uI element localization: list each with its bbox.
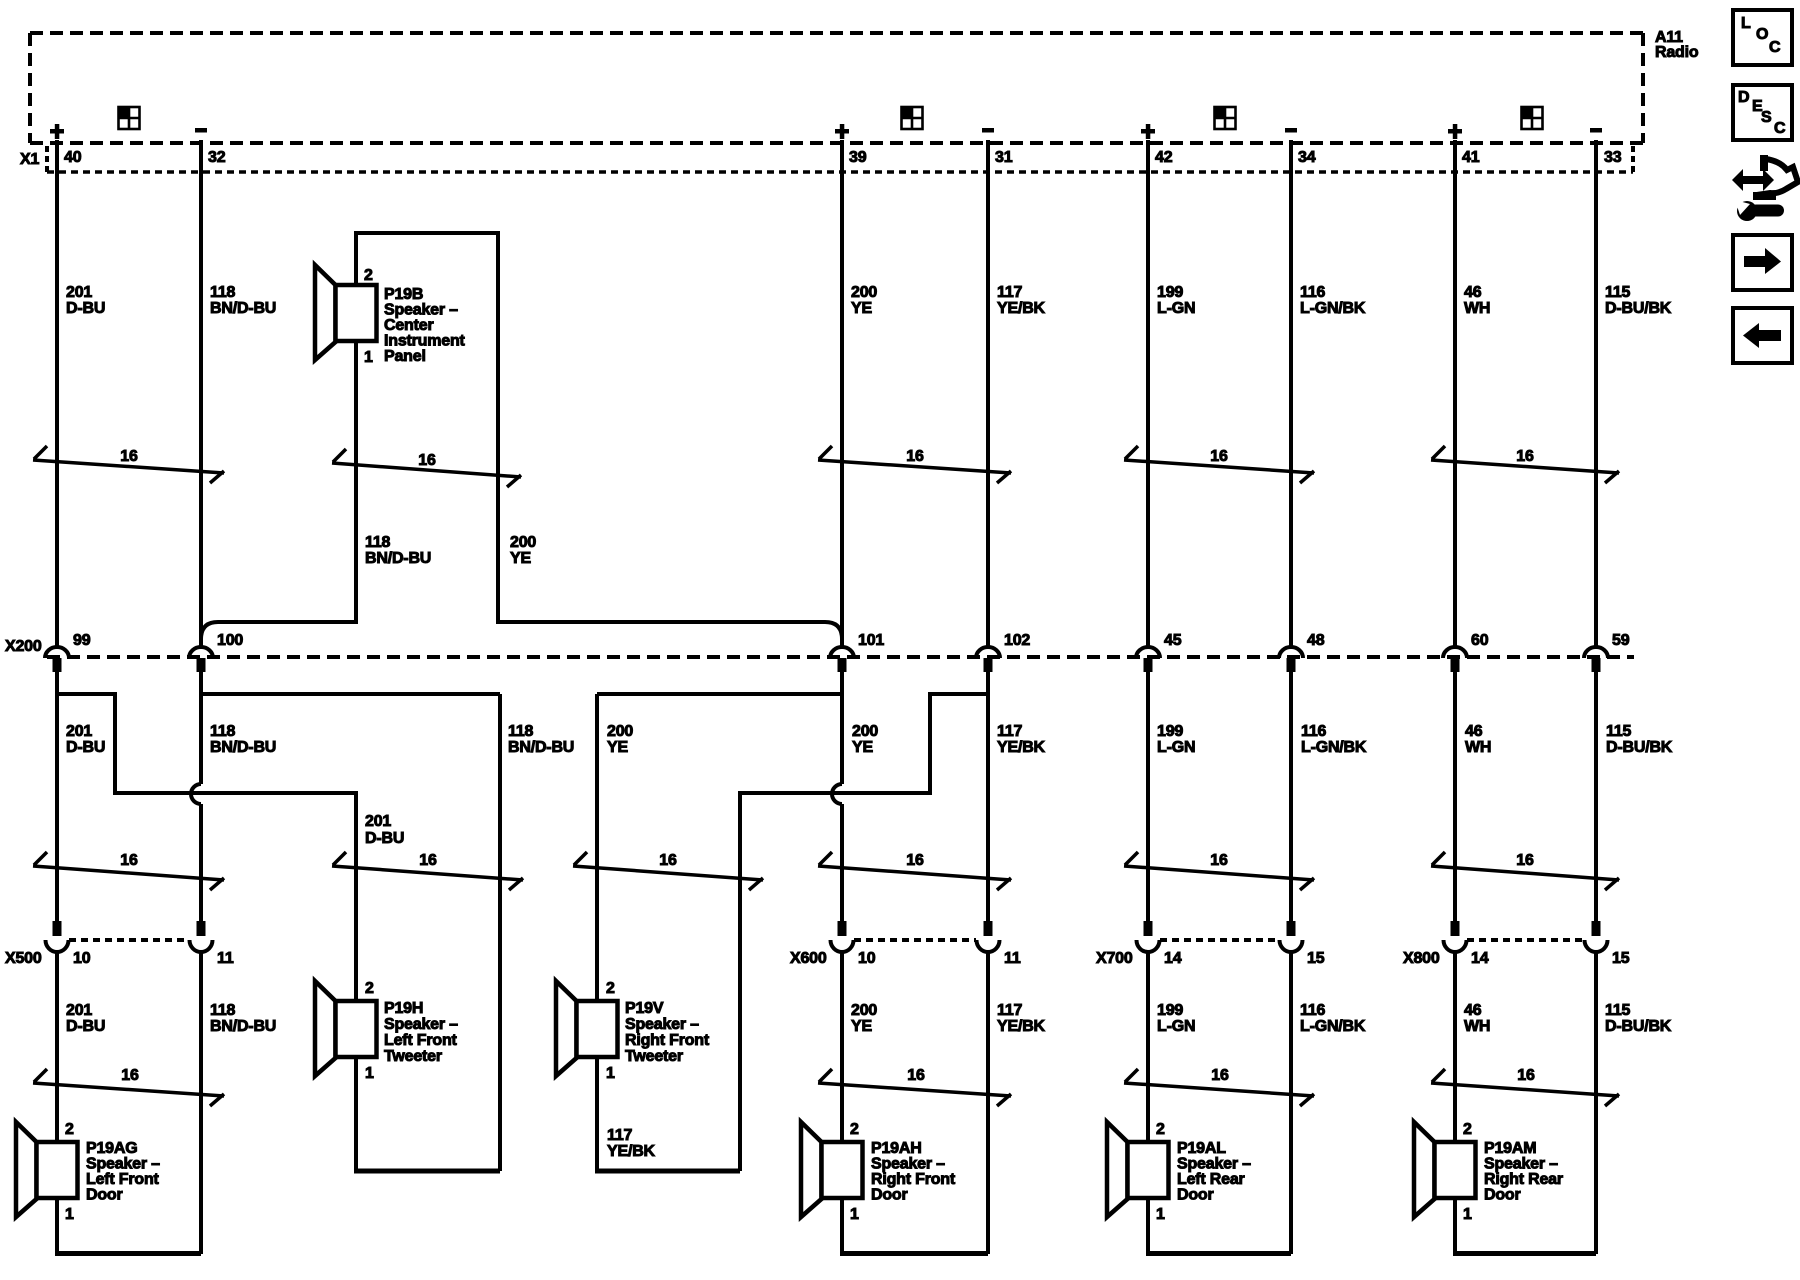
svg-text:1: 1: [850, 1206, 859, 1223]
X1 pin 31: [995, 149, 1013, 166]
speaker symbol (channel 2): [902, 107, 923, 129]
radio output + polarity mark (channel 3): [1141, 124, 1155, 139]
svg-text:BN/D-BU: BN/D-BU: [508, 739, 574, 756]
svg-text:Panel: Panel: [384, 348, 426, 365]
X600 pin 10: [858, 950, 876, 967]
svg-text:YE: YE: [607, 739, 628, 756]
X500 pin 11: [217, 950, 234, 967]
wire gauge marker 16 (wires at x=842,988): [818, 446, 1011, 483]
svg-text:Door: Door: [871, 1187, 908, 1204]
connector X800 row: [1467, 938, 1584, 942]
value label 116 L-GN/BK: [1301, 723, 1367, 756]
speaker P19AL symbol: [1107, 1122, 1169, 1217]
wire junction / branch 201 D-BU to P19H: [57, 694, 356, 1003]
wire (X200 to rear connector), x=1596: [1594, 672, 1598, 921]
svg-text:11: 11: [217, 950, 234, 967]
value label 199 L-GN: [1157, 723, 1195, 756]
value label 118 BN/D-BU: [210, 284, 276, 317]
value label 115 D-BU/BK: [1605, 284, 1672, 317]
wire 200 YE (X1 to X200), x=842: [840, 140, 844, 647]
wire 115 D-BU/BK (X1 to X200), x=1596: [1594, 140, 1598, 647]
radio output - polarity mark (channel 2): [982, 128, 994, 133]
svg-text:201: 201: [66, 723, 92, 740]
value label 201 D-BU: [66, 1002, 105, 1035]
svg-text:S: S: [1761, 109, 1772, 126]
value label 118 BN/D-BU: [210, 1002, 276, 1035]
svg-text:Center: Center: [384, 317, 433, 334]
svg-text:116: 116: [1301, 723, 1327, 740]
svg-text:Tweeter: Tweeter: [625, 1048, 683, 1065]
X500 pin 10: [73, 950, 91, 967]
wire hop (200 over branch): [832, 784, 842, 804]
svg-text:16: 16: [1517, 1067, 1535, 1084]
wire gauge marker 16 (wires at x=356,500): [332, 852, 523, 890]
wire gauge marker 16 (wires at x=57,201): [33, 446, 224, 483]
wire P19H loop bottom: [354, 1169, 500, 1174]
svg-text:Speaker –: Speaker –: [384, 302, 458, 319]
svg-text:X700: X700: [1096, 950, 1133, 967]
wire P19B right lead (200 YE) down to X200 pin 101: [498, 231, 842, 647]
X1 pin 42: [1155, 149, 1173, 166]
wire 116 L-GN/BK (door speaker pin 1 loop to connector): [1289, 951, 1293, 1254]
svg-text:YE: YE: [852, 739, 873, 756]
radio output + polarity mark (channel 1): [50, 124, 64, 139]
svg-text:10: 10: [858, 950, 876, 967]
svg-text:Door: Door: [86, 1187, 123, 1204]
svg-text:Speaker –: Speaker –: [871, 1156, 945, 1173]
wire 199 L-GN (connector to door speaker pin 2): [1146, 951, 1150, 1145]
svg-text:L-GN: L-GN: [1157, 739, 1195, 756]
svg-text:Speaker –: Speaker –: [1177, 1156, 1251, 1173]
svg-text:YE/BK: YE/BK: [997, 300, 1046, 317]
wire 116 L-GN/BK (X1 to X200), x=1291: [1289, 140, 1293, 647]
svg-text:D-BU/BK: D-BU/BK: [1605, 1018, 1672, 1035]
P19V pin 2: [606, 980, 615, 997]
value label 199 L-GN: [1157, 1002, 1195, 1035]
sidebar forward arrow box: [1733, 235, 1792, 290]
X200 pin 60: [1471, 632, 1489, 649]
svg-text:Speaker –: Speaker –: [384, 1016, 458, 1033]
svg-text:200: 200: [851, 1002, 877, 1019]
wire P19AG pin 1 lead: [55, 1197, 59, 1254]
svg-text:200: 200: [510, 534, 536, 551]
speaker symbol (channel 4): [1522, 107, 1543, 129]
svg-text:16: 16: [418, 452, 436, 469]
svg-text:46: 46: [1465, 723, 1483, 740]
value label 117 YE/BK: [997, 1002, 1046, 1035]
X200 pin 45 terminal: [1136, 647, 1160, 672]
speaker P19H symbol: [315, 981, 377, 1076]
svg-text:X200: X200: [5, 638, 42, 655]
value label 46 WH: [1464, 1002, 1490, 1035]
wire (X200 to rear connector), x=1291: [1289, 672, 1293, 921]
svg-text:40: 40: [64, 149, 82, 166]
value label 117 YE/BK: [997, 723, 1046, 756]
X500 pin 10 terminal: [46, 921, 69, 952]
svg-text:BN/D-BU: BN/D-BU: [210, 739, 276, 756]
X500 pin 11 terminal: [190, 921, 213, 952]
value label 201 D-BU: [66, 723, 105, 756]
wire P19V loop bottom: [595, 1169, 740, 1174]
X200 pin 102 terminal: [976, 647, 1000, 672]
sidebar back arrow box: [1733, 308, 1792, 363]
radio output + polarity mark (channel 4): [1448, 124, 1462, 139]
wire 118 BN/D-BU (X1 to X200), x=201: [199, 140, 203, 647]
wire branch 200 YE to P19V pin 2: [597, 694, 842, 1003]
svg-text:1: 1: [1463, 1206, 1472, 1223]
wire 201 D-BU (X200-99 to X500-10): [55, 672, 59, 921]
wire branch 117 YE/BK to P19V pin 1 loop: [740, 694, 988, 1171]
svg-text:2: 2: [365, 980, 374, 997]
P19AM pin 2: [1463, 1121, 1472, 1138]
wire 200 YE (connector to door speaker pin 2): [840, 951, 844, 1145]
value label 200 YE: [851, 1002, 877, 1035]
label X500: [5, 950, 42, 967]
svg-text:O: O: [1756, 26, 1768, 43]
value label 118 BN/D-BU (P19B pin 2 wire): [365, 534, 431, 567]
wire gauge marker 16 (wires at x=57,201): [33, 852, 224, 890]
radio A11 dashed box: [30, 33, 1643, 143]
wire P19AG loop bottom: [55, 1251, 201, 1256]
svg-text:115: 115: [1606, 723, 1632, 740]
svg-text:1: 1: [364, 349, 373, 366]
svg-text:D: D: [1738, 89, 1749, 106]
X200 pin 102: [1004, 632, 1030, 649]
svg-text:P19AM: P19AM: [1484, 1140, 1536, 1157]
P19AG pin 1: [65, 1206, 74, 1223]
svg-text:99: 99: [73, 632, 91, 649]
label X1: [20, 151, 39, 168]
svg-text:118: 118: [508, 723, 534, 740]
svg-text:199: 199: [1157, 1002, 1183, 1019]
P19B pin 1: [364, 349, 373, 366]
svg-text:YE: YE: [851, 300, 872, 317]
svg-text:14: 14: [1471, 950, 1489, 967]
svg-text:P19V: P19V: [625, 1000, 664, 1017]
value label 117 YE/BK: [997, 284, 1046, 317]
speaker symbol (channel 1): [119, 107, 140, 129]
svg-text:31: 31: [995, 149, 1013, 166]
svg-text:YE: YE: [510, 550, 531, 567]
svg-text:Right Front: Right Front: [625, 1032, 710, 1049]
X200 pin 48 terminal: [1279, 647, 1303, 672]
wire P19AM pin 1 lead: [1453, 1197, 1457, 1254]
P19H pin 2: [365, 980, 374, 997]
svg-text:117: 117: [997, 1002, 1023, 1019]
svg-text:118: 118: [210, 723, 236, 740]
X1 pin 40: [64, 149, 82, 166]
svg-text:Speaker –: Speaker –: [86, 1156, 160, 1173]
svg-text:101: 101: [858, 632, 884, 649]
X1 pin 34: [1298, 149, 1316, 166]
svg-text:100: 100: [217, 632, 243, 649]
svg-text:X1: X1: [20, 151, 39, 168]
svg-text:X600: X600: [790, 950, 827, 967]
svg-text:41: 41: [1462, 149, 1480, 166]
P19AG pin 2: [65, 1121, 74, 1138]
svg-text:34: 34: [1298, 149, 1316, 166]
svg-text:WH: WH: [1464, 1018, 1490, 1035]
X800 pin 14: [1471, 950, 1489, 967]
X200 pin 59 terminal: [1584, 647, 1608, 672]
svg-text:45: 45: [1164, 632, 1182, 649]
svg-text:Tweeter: Tweeter: [384, 1048, 442, 1065]
wire (X200 to rear connector), x=1148: [1146, 672, 1150, 921]
svg-text:199: 199: [1157, 723, 1183, 740]
svg-text:16: 16: [1210, 448, 1228, 465]
svg-text:201: 201: [365, 813, 391, 830]
svg-text:YE/BK: YE/BK: [997, 1018, 1046, 1035]
svg-text:200: 200: [852, 723, 878, 740]
svg-text:Door: Door: [1177, 1187, 1214, 1204]
X700 pin 15 terminal: [1280, 921, 1303, 952]
svg-text:15: 15: [1612, 950, 1630, 967]
svg-text:Speaker –: Speaker –: [625, 1016, 699, 1033]
wire 117 YE/BK (door speaker pin 1 loop to connector): [986, 951, 990, 1254]
svg-text:Radio: Radio: [1655, 44, 1699, 61]
speaker P19V symbol: [556, 981, 618, 1076]
svg-text:L-GN: L-GN: [1157, 300, 1195, 317]
connector X600 row: [854, 938, 976, 942]
X600 pin 11: [1004, 950, 1021, 967]
wire gauge marker 16 (wires at x=57,201): [33, 1067, 224, 1106]
label P19V Speaker - Right Front Tweeter: [625, 1000, 710, 1065]
P19AH pin 1: [850, 1206, 859, 1223]
X800 pin 15 terminal: [1585, 921, 1608, 952]
svg-text:42: 42: [1155, 149, 1173, 166]
speaker symbol (channel 3): [1215, 107, 1236, 129]
wire P19B top edge: [354, 231, 500, 235]
svg-text:2: 2: [850, 1121, 859, 1138]
svg-text:199: 199: [1157, 284, 1183, 301]
X200 pin 60 terminal: [1443, 647, 1467, 672]
P19AL pin 1: [1156, 1206, 1165, 1223]
svg-text:D-BU: D-BU: [66, 739, 105, 756]
svg-text:16: 16: [906, 448, 924, 465]
wire gauge marker 16 (wires at x=1455,1596): [1431, 852, 1619, 890]
wire 115 D-BU/BK (door speaker pin 1 loop to connector): [1594, 951, 1598, 1254]
wire gauge marker 16 (wires at x=1455,1596): [1431, 446, 1619, 483]
wire 201 D-BU (connector to door speaker pin 2): [55, 951, 59, 1145]
value label 116 L-GN/BK: [1300, 284, 1366, 317]
value label 200 YE (P19B pin 1 wire): [510, 534, 536, 567]
svg-text:C: C: [1769, 39, 1781, 56]
X600 pin 10 terminal: [831, 921, 854, 952]
wire 46 WH (X1 to X200), x=1455: [1453, 140, 1457, 647]
svg-text:16: 16: [907, 1067, 925, 1084]
svg-text:16: 16: [120, 448, 138, 465]
svg-text:14: 14: [1164, 950, 1182, 967]
svg-text:11: 11: [1004, 950, 1021, 967]
svg-text:16: 16: [1210, 852, 1228, 869]
wire P19B pin 1 lead down to X200 pin 100: [201, 338, 356, 647]
value label 199 L-GN: [1157, 284, 1195, 317]
svg-text:200: 200: [607, 723, 633, 740]
value label 201 D-BU: [66, 284, 105, 317]
svg-text:116: 116: [1300, 284, 1326, 301]
wire P19AH pin 1 lead: [840, 1197, 844, 1254]
label P19AG Speaker - Left Front Door: [86, 1140, 160, 1204]
wire 200 YE (X200-101 to X600-10) with hop: [840, 672, 844, 921]
svg-text:2: 2: [1463, 1121, 1472, 1138]
label P19H Speaker - Left Front Tweeter: [384, 1000, 458, 1065]
svg-text:Speaker –: Speaker –: [1484, 1156, 1558, 1173]
svg-text:D-BU: D-BU: [365, 830, 404, 847]
X700 pin 15: [1307, 950, 1325, 967]
svg-text:32: 32: [208, 149, 226, 166]
label A11 Radio: [1655, 29, 1699, 61]
wire 118 BN/D-BU (door speaker pin 1 loop to connector): [199, 951, 203, 1254]
connector X1 row: [47, 146, 1633, 174]
svg-text:Left Rear: Left Rear: [1177, 1171, 1245, 1188]
svg-text:59: 59: [1612, 632, 1630, 649]
svg-text:16: 16: [419, 852, 437, 869]
svg-text:WH: WH: [1464, 300, 1490, 317]
wire 46 WH (connector to door speaker pin 2): [1453, 951, 1457, 1145]
svg-text:1: 1: [65, 1206, 74, 1223]
svg-text:P19H: P19H: [384, 1000, 423, 1017]
svg-text:16: 16: [120, 852, 138, 869]
P19AM pin 1: [1463, 1206, 1472, 1223]
X1 pin 32: [208, 149, 226, 166]
wire gauge marker 16 (wires at x=1455,1596): [1431, 1067, 1619, 1106]
svg-text:117: 117: [607, 1127, 633, 1144]
svg-text:39: 39: [849, 149, 867, 166]
value label 200 YE: [852, 723, 878, 756]
svg-text:10: 10: [73, 950, 91, 967]
svg-text:Right Front: Right Front: [871, 1171, 956, 1188]
X1 pin 33: [1604, 149, 1622, 166]
svg-text:118: 118: [365, 534, 391, 551]
connector X500 row: [69, 938, 189, 942]
value label 46 WH: [1464, 284, 1490, 317]
label P19AH Speaker - Right Front Door: [871, 1140, 956, 1204]
X200 pin 100: [217, 632, 243, 649]
wire gauge marker 16 (wires at x=1148,1291): [1124, 1067, 1314, 1106]
svg-text:BN/D-BU: BN/D-BU: [210, 300, 276, 317]
svg-text:Left Front: Left Front: [86, 1171, 160, 1188]
svg-text:117: 117: [997, 284, 1023, 301]
wire gauge marker 16 (wires at x=356,498): [332, 449, 521, 487]
value label 46 WH: [1465, 723, 1491, 756]
label X700: [1096, 950, 1133, 967]
svg-text:116: 116: [1300, 1002, 1326, 1019]
svg-text:D-BU/BK: D-BU/BK: [1605, 300, 1672, 317]
X200 pin 45: [1164, 632, 1182, 649]
svg-text:C: C: [1774, 120, 1786, 137]
svg-text:YE/BK: YE/BK: [997, 739, 1046, 756]
label X800: [1403, 950, 1440, 967]
svg-text:15: 15: [1307, 950, 1325, 967]
svg-text:L-GN/BK: L-GN/BK: [1300, 300, 1366, 317]
svg-text:D-BU/BK: D-BU/BK: [1606, 739, 1673, 756]
speaker P19B symbol: [315, 265, 377, 360]
X200 pin 101: [858, 632, 884, 649]
wire gauge marker 16 (wires at x=1148,1291): [1124, 446, 1314, 483]
svg-text:Instrument: Instrument: [384, 333, 466, 350]
value label 116 L-GN/BK: [1300, 1002, 1366, 1035]
radio output - polarity mark (channel 3): [1285, 128, 1297, 133]
svg-text:201: 201: [66, 284, 92, 301]
svg-text:D-BU: D-BU: [66, 1018, 105, 1035]
wire hop (118 over branch): [191, 784, 201, 804]
svg-text:16: 16: [1211, 1067, 1229, 1084]
P19H pin 1: [365, 1065, 374, 1082]
svg-text:102: 102: [1004, 632, 1030, 649]
wire 199 L-GN (X1 to X200), x=1148: [1146, 140, 1150, 647]
wire 201 D-BU (X1 to X200), x=57: [55, 140, 59, 647]
svg-text:YE/BK: YE/BK: [607, 1143, 656, 1160]
speaker P19AH symbol: [801, 1122, 863, 1217]
wire branch 118 BN/D-BU to P19H pin 1 loop: [201, 694, 500, 1171]
svg-text:2: 2: [65, 1121, 74, 1138]
X700 pin 14: [1164, 950, 1182, 967]
X700 pin 14 terminal: [1137, 921, 1160, 952]
svg-text:Right Rear: Right Rear: [1484, 1171, 1563, 1188]
label X200: [5, 638, 42, 655]
svg-text:2: 2: [606, 980, 615, 997]
wire P19AM loop bottom: [1453, 1251, 1596, 1256]
P19B pin 2: [364, 267, 373, 284]
svg-text:P19AG: P19AG: [86, 1140, 137, 1157]
radio output - polarity mark (channel 4): [1590, 128, 1602, 133]
X200 pin 99 terminal: [45, 647, 69, 672]
svg-text:BN/D-BU: BN/D-BU: [365, 550, 431, 567]
value label 117 YE/BK (P19V pin 1 wire): [607, 1127, 656, 1160]
connector X700 row: [1160, 938, 1279, 942]
wire gauge marker 16 (wires at x=1148,1291): [1124, 852, 1314, 890]
value label 200 YE: [851, 284, 877, 317]
value label 201 D-BU (branch to P19H): [365, 813, 404, 847]
X1 pin 39: [849, 149, 867, 166]
svg-text:BN/D-BU: BN/D-BU: [210, 1018, 276, 1035]
svg-text:118: 118: [210, 1002, 236, 1019]
svg-text:115: 115: [1605, 284, 1631, 301]
P19AH pin 2: [850, 1121, 859, 1138]
X1 pin 41: [1462, 149, 1480, 166]
label P19AL Speaker - Left Rear Door: [1177, 1140, 1251, 1204]
wire P19AL pin 1 lead: [1146, 1197, 1150, 1254]
svg-text:16: 16: [659, 852, 677, 869]
svg-text:16: 16: [906, 852, 924, 869]
P19AL pin 2: [1156, 1121, 1165, 1138]
speaker P19AG symbol: [16, 1122, 78, 1217]
svg-text:P19AL: P19AL: [1177, 1140, 1226, 1157]
svg-text:2: 2: [364, 267, 373, 284]
X200 pin 48: [1307, 632, 1325, 649]
svg-text:P19AH: P19AH: [871, 1140, 922, 1157]
X200 pin 59: [1612, 632, 1630, 649]
svg-text:16: 16: [1516, 852, 1534, 869]
value label 118 BN/D-BU: [508, 723, 574, 756]
svg-text:16: 16: [121, 1067, 139, 1084]
wire 117 YE/BK (X200-102 to X600-11): [986, 672, 990, 921]
svg-text:60: 60: [1471, 632, 1489, 649]
sidebar service/tools icon (arrows and wrench): [1732, 155, 1798, 221]
svg-text:Left Front: Left Front: [384, 1032, 458, 1049]
svg-text:Door: Door: [1484, 1187, 1521, 1204]
sidebar DESC legend box: [1733, 85, 1792, 140]
X800 pin 14 terminal: [1444, 921, 1467, 952]
svg-text:33: 33: [1604, 149, 1622, 166]
value label 200 YE: [607, 723, 633, 756]
wire 117 YE/BK (X1 to X200), x=988: [986, 140, 990, 647]
P19V pin 1: [606, 1065, 615, 1082]
svg-text:48: 48: [1307, 632, 1325, 649]
radio output - polarity mark (channel 1): [195, 128, 207, 133]
speaker P19AM symbol: [1414, 1122, 1476, 1217]
svg-text:117: 117: [997, 723, 1023, 740]
